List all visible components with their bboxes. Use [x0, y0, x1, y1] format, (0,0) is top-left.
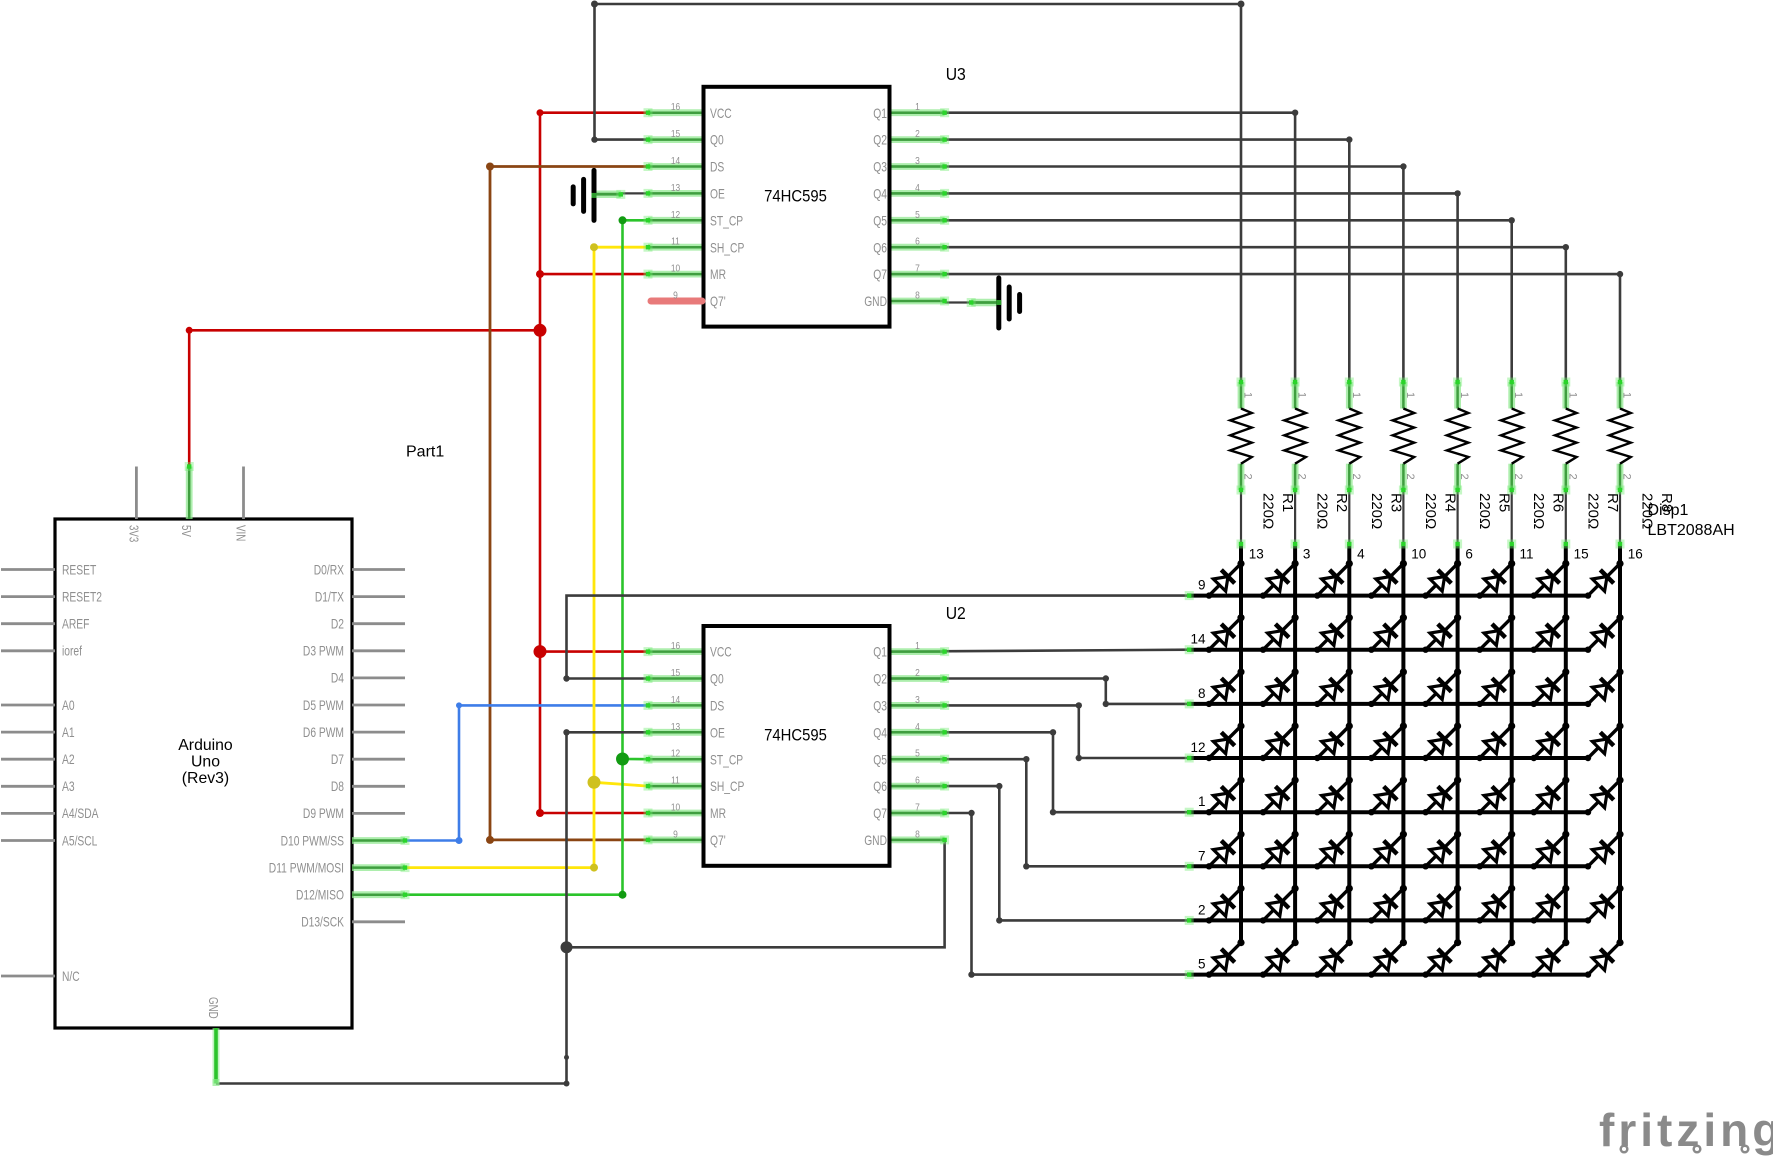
svg-text:16: 16: [671, 101, 680, 113]
svg-text:7: 7: [915, 263, 920, 275]
svg-text:Q4: Q4: [873, 187, 887, 202]
svg-text:2: 2: [1198, 902, 1206, 917]
svg-text:VCC: VCC: [710, 645, 732, 660]
svg-text:7: 7: [1198, 848, 1206, 863]
svg-text:14: 14: [1190, 632, 1206, 647]
svg-text:Q7: Q7: [873, 806, 887, 821]
svg-text:3: 3: [915, 155, 920, 167]
svg-text:GND: GND: [206, 997, 220, 1019]
svg-text:U2: U2: [946, 603, 966, 623]
svg-text:220Ω: 220Ω: [1422, 493, 1439, 529]
svg-text:(Rev3): (Rev3): [182, 770, 229, 787]
svg-text:Arduino: Arduino: [178, 737, 233, 754]
svg-text:R4: R4: [1441, 493, 1458, 512]
svg-text:D3 PWM: D3 PWM: [303, 644, 344, 659]
svg-text:2: 2: [1404, 474, 1416, 480]
svg-text:Q5: Q5: [873, 213, 887, 228]
svg-text:D4: D4: [331, 671, 344, 686]
svg-text:R3: R3: [1387, 493, 1404, 512]
svg-text:15: 15: [1574, 547, 1589, 562]
svg-text:8: 8: [915, 828, 920, 840]
svg-text:R7: R7: [1604, 493, 1621, 512]
svg-text:74HC595: 74HC595: [764, 187, 827, 205]
svg-text:Q6: Q6: [873, 779, 887, 794]
svg-text:220Ω: 220Ω: [1584, 493, 1601, 529]
svg-text:2: 2: [1566, 474, 1578, 480]
svg-text:220Ω: 220Ω: [1314, 493, 1331, 529]
svg-text:ioref: ioref: [62, 644, 82, 659]
svg-text:D8: D8: [331, 779, 344, 794]
svg-text:1: 1: [1404, 392, 1416, 398]
svg-text:Q6: Q6: [873, 240, 887, 255]
svg-text:4: 4: [915, 721, 920, 733]
svg-text:1: 1: [915, 640, 920, 652]
svg-text:2: 2: [1350, 474, 1362, 480]
svg-text:D10 PWM/SS: D10 PWM/SS: [281, 833, 344, 848]
svg-text:14: 14: [671, 155, 680, 167]
svg-text:2: 2: [1242, 474, 1254, 480]
svg-text:MR: MR: [710, 267, 726, 282]
svg-text:D12/MISO: D12/MISO: [296, 888, 344, 903]
svg-text:Q7: Q7: [873, 267, 887, 282]
svg-text:ST_CP: ST_CP: [710, 213, 743, 228]
svg-text:9: 9: [673, 828, 678, 840]
svg-text:220Ω: 220Ω: [1476, 493, 1493, 529]
svg-text:Q7': Q7': [710, 833, 726, 848]
svg-text:R1: R1: [1279, 493, 1296, 512]
svg-text:MR: MR: [710, 806, 726, 821]
svg-text:6: 6: [1465, 547, 1473, 562]
svg-text:R6: R6: [1550, 493, 1567, 512]
svg-text:A3: A3: [62, 779, 75, 794]
svg-text:Q5: Q5: [873, 752, 887, 767]
svg-text:13: 13: [671, 182, 680, 194]
svg-text:3: 3: [915, 694, 920, 706]
svg-text:10: 10: [1411, 547, 1426, 562]
svg-text:Uno: Uno: [191, 754, 220, 771]
svg-text:D2: D2: [331, 617, 344, 632]
svg-text:OE: OE: [710, 725, 725, 740]
svg-text:3: 3: [1303, 547, 1311, 562]
svg-text:10: 10: [671, 263, 680, 275]
svg-text:2: 2: [915, 128, 920, 140]
svg-text:D11 PWM/MOSI: D11 PWM/MOSI: [269, 860, 344, 875]
svg-text:220Ω: 220Ω: [1368, 493, 1385, 529]
svg-text:Q1: Q1: [873, 106, 887, 121]
svg-text:1: 1: [1458, 392, 1470, 398]
svg-text:Disp1: Disp1: [1648, 502, 1689, 519]
svg-text:D5 PWM: D5 PWM: [303, 698, 344, 713]
svg-text:Q7': Q7': [710, 294, 726, 309]
svg-text:220Ω: 220Ω: [1260, 493, 1277, 529]
svg-text:6: 6: [915, 775, 920, 787]
svg-text:A2: A2: [62, 752, 75, 767]
svg-text:1: 1: [1296, 392, 1308, 398]
svg-text:R2: R2: [1333, 493, 1350, 512]
svg-text:12: 12: [671, 748, 680, 760]
svg-text:5: 5: [915, 209, 920, 221]
svg-text:8: 8: [915, 290, 920, 302]
svg-text:12: 12: [1190, 740, 1205, 755]
svg-text:RESET2: RESET2: [62, 589, 102, 604]
svg-text:SH_CP: SH_CP: [710, 240, 744, 255]
svg-text:10: 10: [671, 802, 680, 814]
svg-text:4: 4: [1357, 547, 1365, 562]
svg-text:1: 1: [1350, 392, 1362, 398]
svg-text:1: 1: [915, 101, 920, 113]
svg-text:Part1: Part1: [406, 444, 444, 461]
svg-text:3V3: 3V3: [126, 525, 140, 542]
svg-text:13: 13: [671, 721, 680, 733]
svg-text:A5/SCL: A5/SCL: [62, 833, 98, 848]
svg-text:14: 14: [671, 694, 680, 706]
svg-text:Q1: Q1: [873, 645, 887, 660]
svg-text:2: 2: [1621, 474, 1633, 480]
svg-text:D6 PWM: D6 PWM: [303, 725, 344, 740]
svg-text:1: 1: [1512, 392, 1524, 398]
svg-text:15: 15: [671, 667, 680, 679]
svg-text:5: 5: [1198, 957, 1206, 972]
svg-text:Q3: Q3: [873, 160, 887, 175]
svg-text:D0/RX: D0/RX: [314, 562, 344, 577]
svg-text:DS: DS: [710, 699, 724, 714]
svg-text:A0: A0: [62, 698, 75, 713]
svg-text:2: 2: [1296, 474, 1308, 480]
svg-text:D7: D7: [331, 752, 344, 767]
svg-text:GND: GND: [864, 294, 887, 309]
svg-text:D9 PWM: D9 PWM: [303, 806, 344, 821]
svg-text:1: 1: [1566, 392, 1578, 398]
svg-text:A1: A1: [62, 725, 75, 740]
svg-text:ST_CP: ST_CP: [710, 752, 743, 767]
svg-text:D13/SCK: D13/SCK: [301, 915, 344, 930]
svg-text:9: 9: [673, 290, 678, 302]
svg-text:RESET: RESET: [62, 562, 97, 577]
svg-text:11: 11: [671, 236, 680, 248]
svg-text:Q3: Q3: [873, 699, 887, 714]
svg-text:13: 13: [1249, 547, 1264, 562]
svg-text:16: 16: [671, 640, 680, 652]
svg-text:Q0: Q0: [710, 133, 724, 148]
svg-text:2: 2: [1458, 474, 1470, 480]
svg-text:2: 2: [915, 667, 920, 679]
svg-text:Q4: Q4: [873, 725, 887, 740]
svg-text:DS: DS: [710, 160, 724, 175]
svg-text:15: 15: [671, 128, 680, 140]
svg-text:2: 2: [1512, 474, 1524, 480]
svg-text:8: 8: [1198, 686, 1206, 701]
svg-text:7: 7: [915, 802, 920, 814]
svg-text:D1/TX: D1/TX: [315, 589, 344, 604]
svg-text:9: 9: [1198, 578, 1206, 593]
svg-text:4: 4: [915, 182, 920, 194]
svg-text:1: 1: [1621, 392, 1633, 398]
svg-text:AREF: AREF: [62, 617, 89, 632]
svg-text:6: 6: [915, 236, 920, 248]
svg-text:OE: OE: [710, 187, 725, 202]
svg-text:5V: 5V: [179, 525, 193, 537]
svg-text:N/C: N/C: [62, 969, 80, 984]
svg-text:74HC595: 74HC595: [764, 727, 827, 745]
svg-text:12: 12: [671, 209, 680, 221]
svg-text:LBT2088AH: LBT2088AH: [1648, 522, 1735, 539]
svg-text:220Ω: 220Ω: [1530, 493, 1547, 529]
svg-text:Q2: Q2: [873, 672, 887, 687]
svg-text:Q0: Q0: [710, 672, 724, 687]
svg-text:R5: R5: [1496, 493, 1513, 512]
svg-text:11: 11: [1520, 547, 1534, 562]
svg-text:1: 1: [1198, 794, 1206, 809]
svg-text:11: 11: [671, 775, 680, 787]
svg-text:GND: GND: [864, 833, 887, 848]
svg-text:A4/SDA: A4/SDA: [62, 806, 99, 821]
svg-text:U3: U3: [946, 64, 966, 84]
svg-text:Q2: Q2: [873, 133, 887, 148]
svg-text:VCC: VCC: [710, 106, 732, 121]
svg-text:5: 5: [915, 748, 920, 760]
svg-text:1: 1: [1242, 392, 1254, 398]
svg-text:SH_CP: SH_CP: [710, 779, 744, 794]
svg-text:VIN: VIN: [234, 525, 248, 541]
svg-text:16: 16: [1628, 547, 1643, 562]
